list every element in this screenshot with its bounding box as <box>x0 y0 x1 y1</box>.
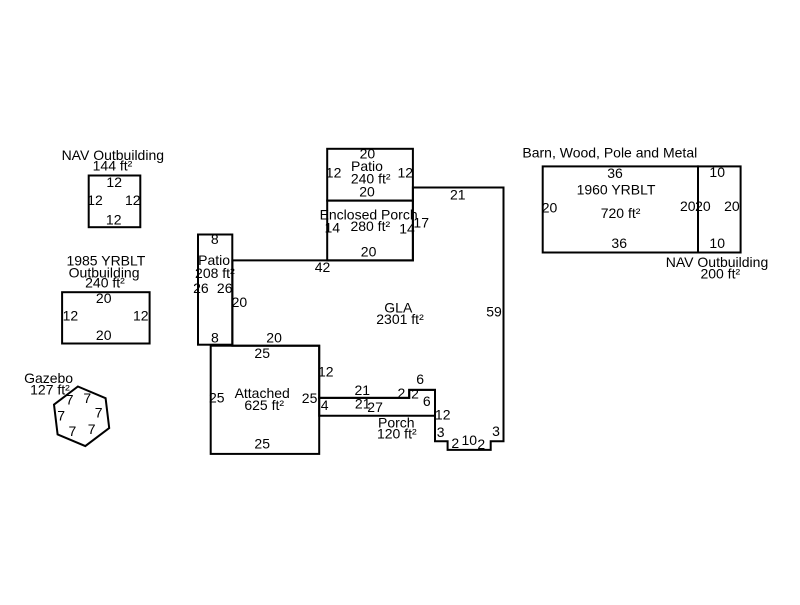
svg-text:720 ft²: 720 ft² <box>601 205 641 221</box>
svg-text:2: 2 <box>411 386 419 402</box>
svg-text:4: 4 <box>321 397 329 413</box>
svg-text:26: 26 <box>193 280 209 296</box>
svg-text:21: 21 <box>450 186 466 202</box>
svg-text:7: 7 <box>83 390 91 406</box>
svg-text:20: 20 <box>361 244 377 260</box>
svg-text:36: 36 <box>607 165 623 181</box>
svg-text:12: 12 <box>63 308 79 324</box>
svg-text:240 ft²: 240 ft² <box>85 275 125 291</box>
svg-text:208 ft²: 208 ft² <box>195 265 235 281</box>
svg-text:2301 ft²: 2301 ft² <box>376 311 424 327</box>
svg-text:3: 3 <box>437 424 445 440</box>
svg-text:120 ft²: 120 ft² <box>377 426 417 442</box>
svg-text:25: 25 <box>302 390 318 406</box>
svg-text:7: 7 <box>88 421 96 437</box>
svg-text:280 ft²: 280 ft² <box>350 218 390 234</box>
svg-text:10: 10 <box>709 235 725 251</box>
svg-text:6: 6 <box>423 393 431 409</box>
svg-text:3: 3 <box>492 423 500 439</box>
svg-text:7: 7 <box>66 392 74 408</box>
svg-text:12: 12 <box>106 211 122 227</box>
svg-text:26: 26 <box>217 280 233 296</box>
svg-text:12: 12 <box>133 308 149 324</box>
svg-text:25: 25 <box>254 345 270 361</box>
svg-text:144 ft²: 144 ft² <box>93 158 133 174</box>
svg-text:8: 8 <box>211 231 219 247</box>
svg-text:625 ft²: 625 ft² <box>244 397 284 413</box>
svg-text:25: 25 <box>209 389 225 405</box>
svg-text:36: 36 <box>611 235 627 251</box>
svg-text:10: 10 <box>462 432 478 448</box>
svg-text:20: 20 <box>96 327 112 343</box>
svg-text:20: 20 <box>680 198 696 214</box>
svg-text:17: 17 <box>413 214 429 230</box>
svg-text:7: 7 <box>95 405 103 421</box>
svg-text:12: 12 <box>87 192 103 208</box>
svg-text:20: 20 <box>266 330 282 346</box>
svg-text:2: 2 <box>451 435 459 451</box>
svg-text:20: 20 <box>359 184 375 200</box>
svg-text:2: 2 <box>477 436 485 452</box>
svg-text:10: 10 <box>709 164 725 180</box>
svg-text:20: 20 <box>232 294 248 310</box>
svg-text:Barn, Wood, Pole and Metal: Barn, Wood, Pole and Metal <box>522 145 697 161</box>
svg-text:200 ft²: 200 ft² <box>700 266 740 282</box>
svg-text:7: 7 <box>57 408 65 424</box>
svg-text:27: 27 <box>367 399 383 415</box>
svg-text:12: 12 <box>326 164 342 180</box>
svg-text:12: 12 <box>435 407 451 423</box>
svg-text:1960 YRBLT: 1960 YRBLT <box>577 181 656 197</box>
svg-text:20: 20 <box>96 290 112 306</box>
svg-text:12: 12 <box>398 164 414 180</box>
svg-text:20: 20 <box>695 198 711 214</box>
svg-text:42: 42 <box>315 259 331 275</box>
svg-text:12: 12 <box>318 363 334 379</box>
svg-text:25: 25 <box>254 436 270 452</box>
svg-text:20: 20 <box>542 200 558 216</box>
svg-text:12: 12 <box>125 192 141 208</box>
svg-text:8: 8 <box>211 330 219 346</box>
svg-text:127 ft²: 127 ft² <box>30 382 70 398</box>
svg-text:59: 59 <box>486 303 502 319</box>
svg-text:12: 12 <box>106 174 122 190</box>
svg-text:7: 7 <box>69 423 77 439</box>
svg-text:14: 14 <box>325 220 341 236</box>
svg-text:20: 20 <box>724 198 740 214</box>
